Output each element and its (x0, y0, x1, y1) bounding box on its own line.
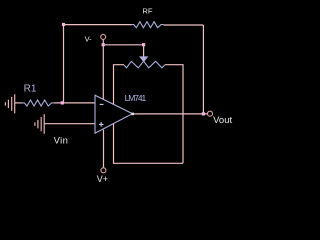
wire RF right to corner (163, 24, 203, 26)
op-amp U1 triangle (95, 95, 133, 133)
wire wiper horizontal (103, 44, 143, 46)
node pin dot at op-amp apex (131, 113, 134, 116)
wire feedback top horizontal (64, 24, 132, 26)
svg-text:RF: RF (142, 7, 152, 16)
wire ground to R1 (15, 102, 22, 104)
op-amp plus sign (99, 122, 104, 127)
potentiometer wiper arrow (139, 56, 148, 62)
terminal Vout circle (208, 111, 213, 116)
svg-text:Vout: Vout (213, 115, 232, 126)
node junction at V- pin / wiper wire (102, 43, 105, 46)
wire Vin to non-inverting input (44, 123, 95, 125)
node junction top-left (62, 23, 65, 26)
node junction at output / feedback (202, 112, 205, 115)
resistor RF (132, 22, 164, 28)
ground (left, at R1) (5, 94, 14, 113)
wire output from apex (133, 113, 208, 115)
wire pot left terminal (114, 65, 125, 105)
svg-text:R1: R1 (24, 84, 37, 95)
wire pot right terminal (165, 65, 183, 164)
wire RF corner down to output (202, 25, 204, 114)
wire R1 to inverting input (54, 102, 95, 104)
ground-style source Vin (35, 114, 44, 134)
terminal V- circle (101, 34, 106, 39)
terminal V+ circle (101, 168, 106, 173)
wire V- pin vertical (102, 40, 104, 100)
svg-text:V-: V- (85, 35, 93, 44)
wire feedback left vertical (63, 25, 65, 103)
wire V+ pin vertical (103, 130, 105, 168)
potentiometer resistor zigzag (124, 61, 165, 68)
node junction at R1 / feedback (61, 101, 64, 104)
svg-text:LM741: LM741 (125, 93, 147, 103)
wire wiper vertical (143, 45, 145, 57)
svg-text:V+: V+ (97, 174, 108, 184)
op-amp minus sign (100, 103, 104, 105)
node junction at wiper corner (142, 43, 145, 46)
svg-text:Vin: Vin (54, 136, 69, 147)
resistor R1 (22, 100, 54, 106)
wire offset pin around bottom (114, 124, 184, 163)
